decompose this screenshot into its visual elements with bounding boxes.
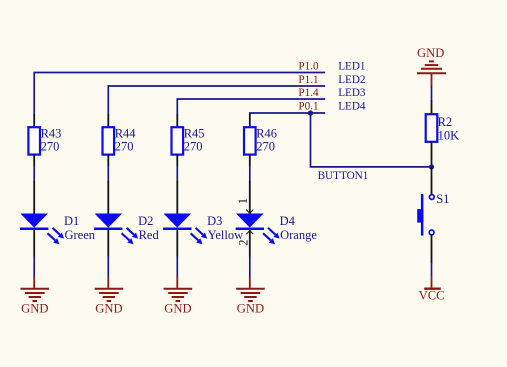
wire D4 to GND <box>249 256 251 277</box>
svg-text:D3: D3 <box>207 214 222 228</box>
svg-text:P0.1: P0.1 <box>298 101 318 113</box>
svg-text:1: 1 <box>236 198 250 204</box>
svg-text:D4: D4 <box>280 214 296 228</box>
svg-text:D1: D1 <box>64 214 79 228</box>
wire net P1.1 (R44 branch) <box>108 86 325 115</box>
junction node BUTTON1 at R2/S1 <box>429 164 434 169</box>
resistor R45 270 <box>172 114 205 166</box>
wire D3 to GND <box>176 256 178 277</box>
LED D2 (Red) <box>94 181 159 256</box>
wire D1 to GND <box>33 256 35 277</box>
LED D4 (Orange) <box>236 181 318 256</box>
svg-text:LED1: LED1 <box>338 61 365 73</box>
svg-text:GND: GND <box>95 301 122 315</box>
ground GND under D2 <box>95 277 124 316</box>
wire D2 to GND <box>107 256 109 277</box>
wire net BUTTON1 <box>311 113 432 167</box>
wire R45 to D3 <box>176 166 178 182</box>
svg-text:Green: Green <box>65 228 96 242</box>
svg-text:LED3: LED3 <box>338 87 366 99</box>
svg-text:R46: R46 <box>256 127 277 141</box>
power port VCC <box>419 275 445 302</box>
wire net P1.4 (R45 branch) <box>177 99 325 115</box>
svg-text:D2: D2 <box>138 214 153 228</box>
svg-text:R43: R43 <box>41 127 62 141</box>
svg-text:S1: S1 <box>436 192 449 206</box>
svg-text:2: 2 <box>236 239 250 245</box>
svg-text:270: 270 <box>256 140 275 154</box>
wire R43 to D1 <box>33 166 35 182</box>
wire R46 to D4 <box>249 166 251 182</box>
svg-text:10K: 10K <box>438 129 460 143</box>
junction node on P0.1 <box>308 110 313 115</box>
svg-text:Orange: Orange <box>280 228 317 242</box>
svg-text:P1.4: P1.4 <box>298 87 319 99</box>
wire net P0.1 (R46 branch) <box>250 113 325 115</box>
svg-text:270: 270 <box>41 140 60 154</box>
pin 1 arrow (into D4) <box>246 210 253 214</box>
resistor R43 270 <box>28 114 61 166</box>
resistor R46 270 <box>244 114 277 166</box>
ground GND under D3 <box>164 277 193 316</box>
LED D3 (Yellow) <box>163 181 243 256</box>
resistor R44 270 <box>103 114 137 166</box>
ground GND under D4 <box>236 277 265 316</box>
svg-text:GND: GND <box>21 301 48 315</box>
resistor R2 10K <box>426 100 459 167</box>
svg-text:R2: R2 <box>438 115 453 129</box>
svg-text:270: 270 <box>115 140 134 154</box>
ground GND under D1 <box>21 277 50 316</box>
wire R44 to D2 <box>107 166 109 182</box>
svg-text:VCC: VCC <box>419 289 445 303</box>
svg-text:GND: GND <box>417 46 444 60</box>
svg-text:GND: GND <box>237 301 264 315</box>
svg-text:P1.0: P1.0 <box>298 61 319 73</box>
wire GND to R2 <box>431 86 433 100</box>
pin 2 arrow (into D4) <box>246 231 253 235</box>
svg-text:R45: R45 <box>184 127 205 141</box>
svg-text:BUTTON1: BUTTON1 <box>318 170 369 182</box>
wire net P1.0 (R43 branch) <box>34 73 325 116</box>
svg-text:Red: Red <box>139 228 160 242</box>
svg-text:P1.1: P1.1 <box>298 74 318 86</box>
svg-text:R44: R44 <box>115 127 137 141</box>
svg-text:LED4: LED4 <box>338 101 366 113</box>
LED D1 (Green) <box>20 181 96 256</box>
svg-text:LED2: LED2 <box>338 74 365 86</box>
wire S1 to VCC <box>431 263 433 276</box>
svg-text:270: 270 <box>184 140 203 154</box>
power port GND (top right) <box>417 46 446 86</box>
svg-text:GND: GND <box>164 301 191 315</box>
switch S1 (push button) <box>417 167 449 264</box>
